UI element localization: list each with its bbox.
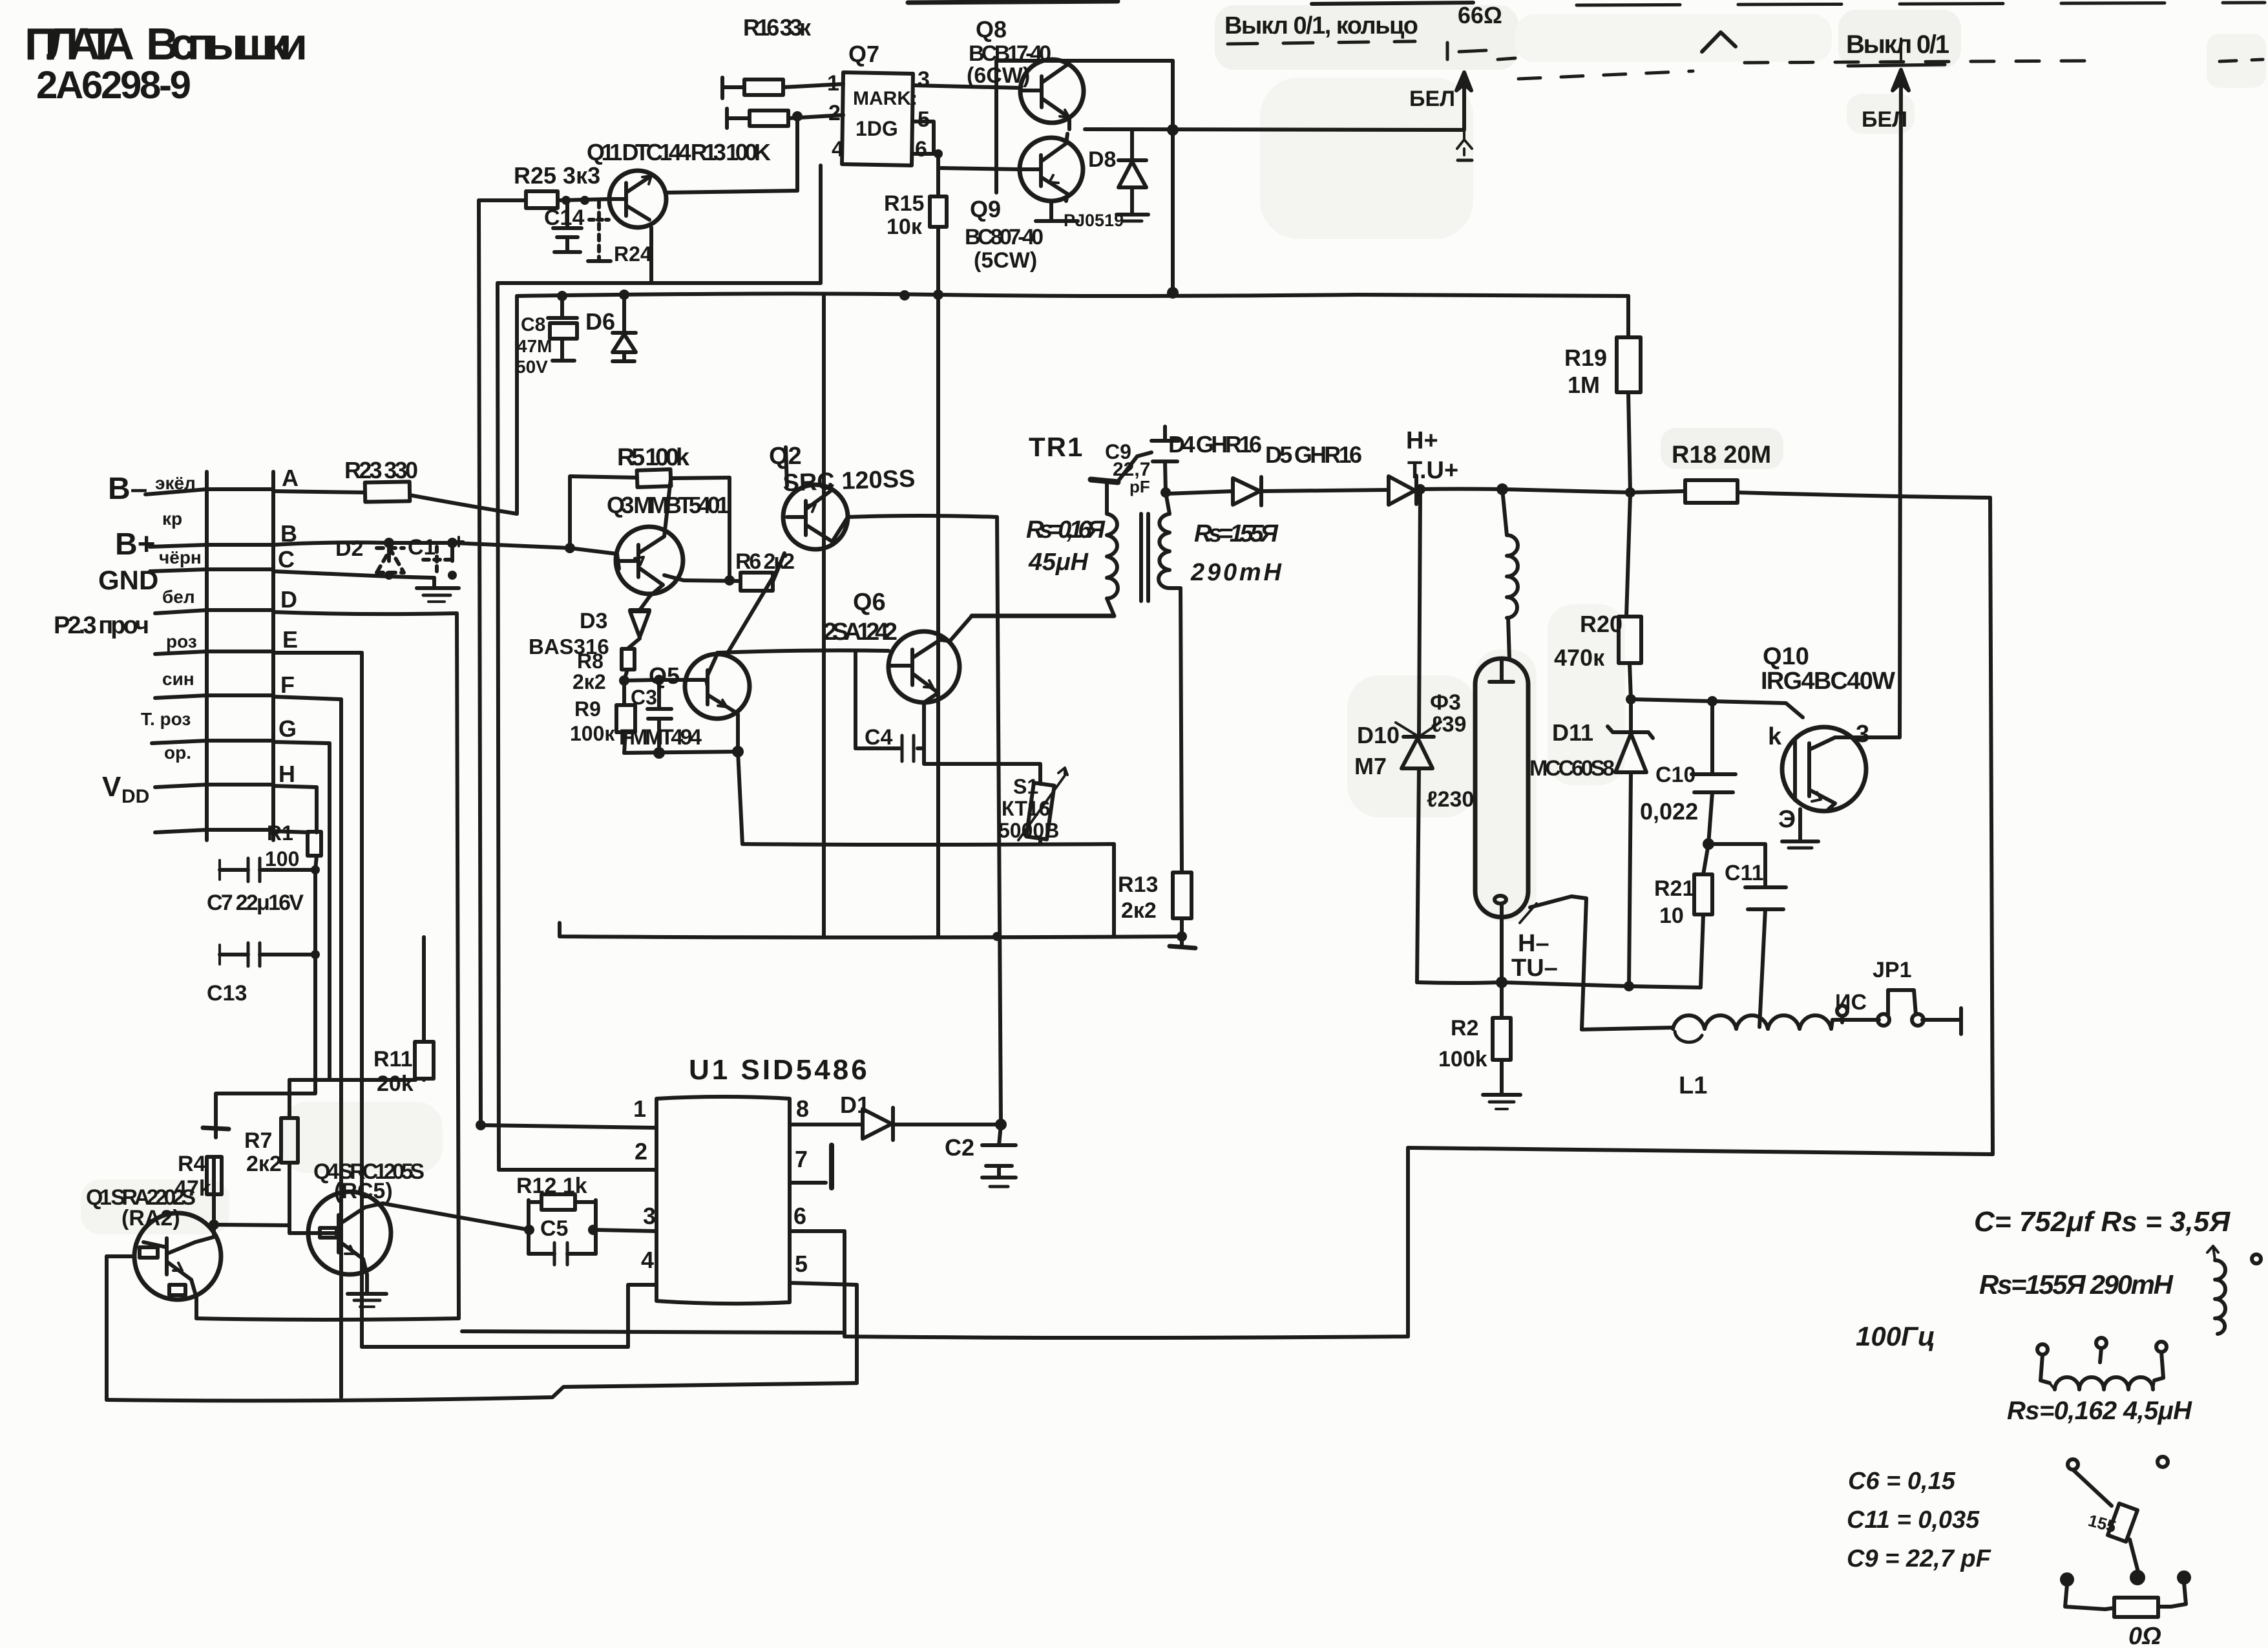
svg-text:R11: R11 bbox=[373, 1047, 413, 1072]
svg-text:4: 4 bbox=[641, 1247, 654, 1273]
svg-text:5: 5 bbox=[918, 107, 930, 132]
svg-text:10: 10 bbox=[1659, 903, 1684, 928]
svg-text:L1: L1 bbox=[1679, 1072, 1707, 1099]
svg-text:45μH: 45μH bbox=[1028, 549, 1089, 576]
svg-text:H: H bbox=[278, 761, 295, 787]
svg-text:R24: R24 bbox=[614, 242, 652, 266]
svg-text:R23 330: R23 330 bbox=[344, 457, 418, 483]
svg-text:D8: D8 bbox=[1088, 147, 1116, 172]
svg-text:ℓ230: ℓ230 bbox=[1427, 787, 1474, 812]
svg-text:2: 2 bbox=[635, 1138, 647, 1165]
svg-text:C11 = 0,035: C11 = 0,035 bbox=[1847, 1506, 1980, 1534]
svg-text:B+: B+ bbox=[115, 527, 156, 562]
svg-text:C= 752μf Rs = 3,5Я: C= 752μf Rs = 3,5Я bbox=[1974, 1206, 2231, 1238]
svg-text:R21: R21 bbox=[1654, 876, 1694, 901]
svg-text:C11: C11 bbox=[1725, 861, 1764, 885]
svg-text:R13: R13 bbox=[1118, 872, 1158, 897]
svg-text:Q5: Q5 bbox=[649, 662, 680, 689]
svg-text:C9 = 22,7 pF: C9 = 22,7 pF bbox=[1847, 1545, 1992, 1572]
svg-text:(RC5): (RC5) bbox=[334, 1179, 393, 1203]
svg-text:S1: S1 bbox=[1013, 775, 1038, 798]
svg-text:Вспышки: Вспышки bbox=[146, 19, 308, 69]
svg-text:R12 1k: R12 1k bbox=[516, 1174, 587, 1198]
svg-text:E: E bbox=[282, 626, 298, 653]
svg-text:роз: роз bbox=[166, 631, 197, 651]
svg-text:R4: R4 bbox=[178, 1152, 206, 1176]
svg-text:Q3 MMBT5401: Q3 MMBT5401 bbox=[607, 492, 730, 518]
svg-text:чёрн: чёрн bbox=[159, 547, 202, 567]
svg-text:(5CW): (5CW) bbox=[974, 248, 1037, 273]
svg-text:C: C bbox=[278, 546, 295, 573]
svg-text:D11: D11 bbox=[1552, 719, 1593, 746]
svg-text:R18 20M: R18 20M bbox=[1672, 441, 1771, 469]
svg-text:D3: D3 bbox=[580, 609, 607, 633]
svg-text:Q8: Q8 bbox=[976, 16, 1007, 43]
svg-text:кр: кр bbox=[162, 509, 182, 529]
svg-text:A: A bbox=[282, 465, 299, 491]
svg-text:6: 6 bbox=[915, 137, 927, 162]
svg-text:k: k bbox=[1768, 723, 1782, 750]
svg-text:БЕЛ: БЕЛ bbox=[1862, 107, 1907, 132]
svg-text:M7: M7 bbox=[1354, 753, 1387, 779]
svg-text:pF: pF bbox=[1129, 477, 1150, 496]
svg-text:C1: C1 bbox=[408, 535, 436, 560]
svg-text:2к2: 2к2 bbox=[572, 670, 606, 693]
svg-text:4: 4 bbox=[832, 137, 844, 162]
svg-text:100Гц: 100Гц bbox=[1856, 1321, 1935, 1351]
svg-text:2: 2 bbox=[828, 101, 841, 125]
svg-text:D10: D10 bbox=[1357, 722, 1400, 748]
svg-text:3: 3 bbox=[643, 1203, 656, 1229]
svg-text:(6CW): (6CW) bbox=[967, 63, 1030, 88]
svg-text:Rs=155Я: Rs=155Я bbox=[1194, 520, 1279, 547]
svg-text:C13: C13 bbox=[207, 981, 247, 1006]
svg-text:C8: C8 bbox=[521, 314, 545, 335]
svg-text:Ф3: Ф3 bbox=[1430, 690, 1461, 715]
svg-text:C3: C3 bbox=[631, 686, 657, 709]
svg-text:290mH: 290mH bbox=[1190, 559, 1283, 586]
svg-text:2к2: 2к2 bbox=[246, 1152, 282, 1176]
svg-text:R25 3к3: R25 3к3 bbox=[514, 162, 600, 189]
svg-text:PJ0519: PJ0519 bbox=[1064, 211, 1124, 230]
svg-text:3: 3 bbox=[918, 67, 930, 92]
svg-text:Rs=155Я 290mH: Rs=155Я 290mH bbox=[1979, 1269, 2174, 1300]
svg-text:H–: H– bbox=[1518, 930, 1549, 957]
svg-text:D5 GHR16: D5 GHR16 bbox=[1265, 441, 1362, 468]
svg-text:66Ω: 66Ω bbox=[1458, 2, 1502, 28]
svg-text:C10: C10 bbox=[1655, 763, 1696, 787]
svg-text:P2.3 проч: P2.3 проч bbox=[54, 612, 149, 639]
svg-text:Q6: Q6 bbox=[853, 589, 886, 616]
svg-text:КТ16: КТ16 bbox=[1002, 797, 1050, 820]
svg-text:Rs=0,162 4,5μH: Rs=0,162 4,5μH bbox=[2007, 1397, 2192, 1425]
svg-text:2к2: 2к2 bbox=[1121, 898, 1157, 923]
svg-text:TU–: TU– bbox=[1511, 955, 1558, 982]
svg-text:C7 22μ16V: C7 22μ16V bbox=[207, 891, 304, 915]
svg-text:100k: 100k bbox=[1438, 1047, 1487, 1072]
svg-text:ИС: ИС bbox=[1835, 990, 1867, 1015]
svg-text:5: 5 bbox=[795, 1251, 808, 1277]
svg-text:BCB17-40: BCB17-40 bbox=[969, 41, 1051, 66]
svg-text:0,022: 0,022 bbox=[1640, 798, 1698, 825]
svg-text:50V: 50V bbox=[516, 357, 548, 377]
svg-text:1DG: 1DG bbox=[856, 117, 898, 140]
svg-text:R7: R7 bbox=[244, 1128, 272, 1153]
svg-text:Выкл 0/1: Выкл 0/1 bbox=[1846, 30, 1949, 59]
svg-text:D: D bbox=[280, 586, 297, 613]
svg-text:бел: бел bbox=[162, 587, 195, 607]
svg-text:SRC 120SS: SRC 120SS bbox=[782, 465, 916, 497]
svg-text:2SA1242: 2SA1242 bbox=[823, 618, 898, 646]
svg-text:6: 6 bbox=[793, 1203, 806, 1229]
svg-text:C6 = 0,15: C6 = 0,15 bbox=[1848, 1468, 1956, 1495]
svg-text:R20: R20 bbox=[1580, 611, 1622, 637]
svg-text:R9: R9 bbox=[574, 697, 601, 721]
svg-text:Выкл 0/1, кольцо: Выкл 0/1, кольцо bbox=[1224, 12, 1418, 39]
svg-text:Rs=0,16Я: Rs=0,16Я bbox=[1026, 516, 1106, 544]
svg-text:10к: 10к bbox=[887, 215, 923, 239]
svg-text:V: V bbox=[102, 771, 121, 803]
svg-text:47k: 47k bbox=[174, 1176, 211, 1201]
svg-text:MCC60S8: MCC60S8 bbox=[1529, 756, 1615, 781]
svg-text:H+: H+ bbox=[1406, 427, 1438, 454]
svg-text:C4: C4 bbox=[865, 725, 893, 750]
svg-text:D6: D6 bbox=[585, 308, 615, 335]
svg-text:0Ω: 0Ω bbox=[2128, 1623, 2161, 1648]
svg-text:1: 1 bbox=[827, 71, 839, 96]
svg-text:C14: C14 bbox=[544, 206, 584, 230]
svg-text:ℓ39: ℓ39 bbox=[1431, 712, 1466, 737]
svg-text:G: G bbox=[278, 715, 297, 742]
svg-text:470к: 470к bbox=[1554, 644, 1605, 671]
svg-text:F: F bbox=[280, 671, 295, 698]
svg-text:JP1: JP1 bbox=[1873, 958, 1912, 982]
svg-text:Т. роз: Т. роз bbox=[141, 709, 191, 729]
svg-text:C2: C2 bbox=[945, 1134, 974, 1161]
svg-text:Э: Э bbox=[1778, 806, 1796, 833]
svg-text:(RA2): (RA2) bbox=[121, 1206, 180, 1231]
svg-text:Q2: Q2 bbox=[769, 443, 802, 470]
svg-text:B: B bbox=[280, 520, 297, 547]
svg-text:R19: R19 bbox=[1564, 344, 1607, 371]
svg-text:B–: B– bbox=[108, 472, 147, 506]
svg-text:TR1: TR1 bbox=[1029, 432, 1084, 462]
svg-text:1: 1 bbox=[633, 1095, 646, 1122]
svg-text:3: 3 bbox=[1856, 721, 1869, 748]
svg-text:100: 100 bbox=[265, 847, 299, 871]
svg-text:R1: R1 bbox=[267, 821, 293, 845]
svg-text:ПЛАТА: ПЛАТА bbox=[25, 19, 134, 69]
svg-text:T.U+: T.U+ bbox=[1407, 457, 1458, 484]
svg-text:БЕЛ: БЕЛ bbox=[1409, 87, 1455, 111]
svg-text:5000В: 5000В bbox=[998, 819, 1059, 842]
svg-text:100к: 100к bbox=[570, 722, 615, 745]
svg-text:Q7: Q7 bbox=[848, 41, 879, 67]
svg-text:47M: 47M bbox=[517, 336, 552, 356]
svg-text:FMMT494: FMMT494 bbox=[619, 725, 702, 750]
svg-text:C5: C5 bbox=[540, 1216, 568, 1241]
svg-text:MARK:: MARK: bbox=[853, 88, 918, 109]
svg-text:экёл: экёл bbox=[155, 473, 196, 493]
svg-text:Q11 DTC144 R13 100K: Q11 DTC144 R13 100K bbox=[587, 139, 771, 165]
svg-text:D1: D1 bbox=[840, 1092, 870, 1118]
svg-text:R16 33к: R16 33к bbox=[743, 14, 812, 41]
svg-text:R8: R8 bbox=[577, 650, 604, 673]
svg-text:R2: R2 bbox=[1451, 1016, 1478, 1041]
svg-text:Q9: Q9 bbox=[970, 196, 1001, 222]
svg-text:GND: GND bbox=[98, 565, 158, 595]
svg-text:DD: DD bbox=[121, 786, 149, 807]
svg-text:7: 7 bbox=[795, 1146, 808, 1172]
svg-text:ор.: ор. bbox=[164, 743, 191, 763]
svg-text:20k: 20k bbox=[377, 1072, 414, 1096]
svg-text:2A6298-9: 2A6298-9 bbox=[36, 63, 191, 107]
svg-text:BC807-40: BC807-40 bbox=[965, 225, 1044, 249]
svg-text:Q10: Q10 bbox=[1763, 643, 1809, 670]
svg-text:R5 100k: R5 100k bbox=[617, 444, 690, 471]
svg-text:D2: D2 bbox=[335, 536, 363, 561]
svg-text:IRG4BC40W: IRG4BC40W bbox=[1761, 668, 1895, 695]
svg-text:1М: 1М bbox=[1568, 372, 1600, 398]
svg-text:U1 SID5486: U1 SID5486 bbox=[689, 1054, 870, 1086]
svg-text:D4 GHR16: D4 GHR16 bbox=[1168, 431, 1262, 458]
svg-text:син: син bbox=[162, 669, 194, 689]
svg-text:R15: R15 bbox=[884, 191, 924, 216]
svg-text:8: 8 bbox=[796, 1095, 809, 1122]
svg-text:R6 2к2: R6 2к2 bbox=[735, 549, 795, 574]
